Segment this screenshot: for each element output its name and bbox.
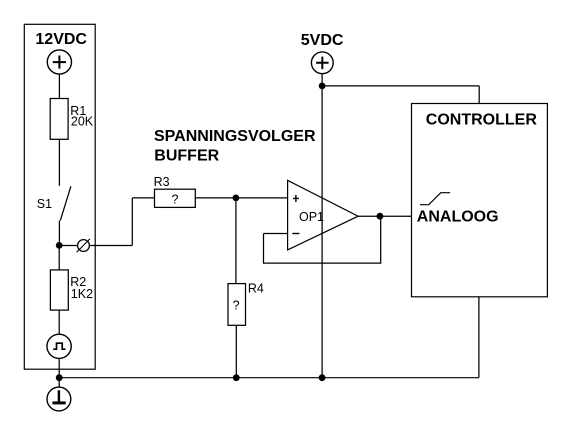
wire node to R2 [58,246,60,270]
node A (switch/R2 junction) [56,242,63,249]
svg-text:5VDC: 5VDC [301,32,344,49]
resistor R3 [155,189,196,207]
resistor R2 [50,270,68,310]
wire node to ground symbol [58,378,60,388]
op-amp - input marker [292,233,299,235]
svg-text:ANALOOG: ANALOOG [417,209,499,226]
svg-text:R4: R4 [248,281,264,295]
voltage source V+ 5V [311,52,333,74]
12V source block outline [24,24,95,369]
ground [47,387,71,411]
switch S1 blade [60,186,71,220]
node ground-left [56,374,63,381]
wire node to connector [59,245,77,247]
controller box [412,104,548,297]
wire connector to R3 [89,198,154,246]
wire R1 to switch [58,139,60,186]
5V rail down [321,86,323,378]
connector (circle with slash) [78,240,90,252]
svg-text:1K2: 1K2 [71,287,93,301]
wire - input [264,233,288,235]
node 5V [319,83,326,90]
wire V+ to R1 [58,74,60,98]
node R4-ground [233,374,240,381]
wire controller bottom to ground rail [478,297,480,378]
voltage source V+ 12V [47,50,71,74]
wire R2 to pulse source [58,310,60,334]
node B (R3/R4 junction) [233,195,240,202]
op-amp + input marker [293,195,299,202]
node 5V-ground rail [319,374,326,381]
wire switch to node [58,221,60,246]
wire R3 to op-amp + input [195,197,287,199]
svg-text:CONTROLLER: CONTROLLER [426,112,538,129]
output wire op-amp to controller [358,215,411,217]
pulse source [47,334,71,358]
svg-text:?: ? [233,299,240,313]
svg-text:SPANNINGSVOLGER: SPANNINGSVOLGER [154,128,316,145]
resistor R1 [50,99,68,140]
feedback wire [264,216,381,263]
wire V5 to node [321,74,323,86]
svg-text:S1: S1 [37,197,52,211]
svg-text:R3: R3 [154,175,170,189]
svg-text:?: ? [172,192,179,206]
svg-text:BUFFER: BUFFER [154,147,219,164]
node C (output junction) [377,213,384,220]
svg-text:20K: 20K [71,115,94,129]
wire node B to R4 [235,198,237,284]
wire 5V node to controller top [322,86,479,104]
svg-text:12VDC: 12VDC [35,31,87,48]
ground rail (bottom wire) [59,377,479,379]
resistor R4 [228,284,246,326]
wire pulse source to ground rail [58,359,60,378]
svg-text:OP1: OP1 [299,210,324,224]
analog ramp icon [420,193,450,205]
wire R4 to ground rail [235,325,237,377]
op-amp U1 triangle [288,180,359,250]
